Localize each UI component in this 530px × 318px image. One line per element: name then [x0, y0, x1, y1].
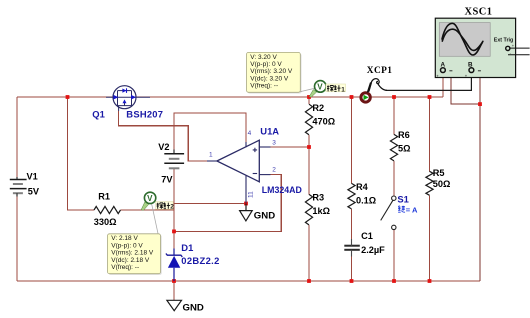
- label V1 value: [27, 171, 40, 196]
- svg-text:470Ω: 470Ω: [312, 116, 335, 126]
- label R5 value: [433, 168, 451, 189]
- junction node R2 on top rail: [307, 95, 311, 99]
- label R2 value: [312, 103, 335, 127]
- transistor Q1 BSH207 P-MOSFET: [106, 86, 150, 111]
- svg-text:R1: R1: [98, 191, 110, 201]
- svg-text:5V: 5V: [28, 186, 40, 196]
- resistor R3 1kohm: [305, 194, 312, 225]
- svg-text:V(p-p): 0 V: V(p-p): 0 V: [250, 61, 282, 68]
- label D1 02BZ2.2: [181, 242, 219, 266]
- wire V2- down: [173, 168, 175, 203]
- label S1 key=A: [397, 194, 418, 215]
- wire V1 left column top: [16, 97, 18, 177]
- voltage probe 2 (tan-zhen-2) on reference node: [141, 192, 158, 233]
- wire top rail left segment V1+ to Q1: [17, 96, 113, 98]
- battery V2 7V: [164, 150, 184, 169]
- svg-text:LM324AD: LM324AD: [262, 185, 302, 195]
- measurement tooltip for probe 2 (2.18 V): [108, 234, 162, 275]
- junction node R5 on ground rail: [428, 279, 432, 283]
- wire S1 bottom to ground rail: [393, 230, 395, 281]
- wire R4 bottom to C1 top: [351, 209, 353, 244]
- svg-text:1: 1: [341, 86, 345, 93]
- svg-text:2: 2: [170, 204, 174, 211]
- voltage probe 1 (tan-zhen-1) on output node: [301, 81, 327, 97]
- wire R2 bottom to R3 top: [308, 135, 310, 195]
- svg-text:V(freq): --: V(freq): --: [111, 264, 139, 271]
- svg-text:S1: S1: [397, 194, 408, 205]
- label V2 value: [158, 142, 173, 185]
- svg-text:4: 4: [248, 130, 252, 137]
- resistor R6 5ohm: [390, 134, 397, 161]
- svg-text:R2: R2: [312, 103, 324, 113]
- resistor R2 470ohm: [305, 104, 312, 135]
- resistor R5 50ohm: [426, 171, 433, 195]
- svg-text:02BZ2.2: 02BZ2.2: [181, 255, 219, 266]
- svg-text:D1: D1: [181, 242, 193, 253]
- oscilloscope XSC1: [435, 18, 529, 78]
- junction node op-amp pin11 GND: [244, 202, 248, 206]
- svg-text:50Ω: 50Ω: [433, 179, 451, 189]
- svg-text:Q1: Q1: [92, 108, 105, 119]
- svg-text:V: 3.20 V: V: 3.20 V: [250, 54, 277, 61]
- svg-text:V1: V1: [27, 171, 38, 181]
- svg-text:1: 1: [209, 152, 213, 159]
- op-amp U1A LM324AD: [207, 140, 271, 203]
- svg-text:BSH207: BSH207: [126, 108, 163, 119]
- junction node zener reference to pin2: [172, 230, 176, 234]
- junction node divider R2/R3 pin3: [307, 145, 311, 149]
- wire scope B- down to ground rail: [479, 78, 481, 281]
- label U1A LM324AD: [260, 126, 302, 195]
- svg-text:V2: V2: [158, 142, 169, 152]
- junction node D1 on ground rail: [172, 279, 176, 283]
- ground symbol at bottom of D1 column: [167, 300, 182, 310]
- junction node R6 on top rail: [392, 95, 396, 99]
- label C1 value: [361, 231, 385, 255]
- svg-text:V(freq): --: V(freq): --: [250, 83, 278, 90]
- resistor R1 330ohm (horizontal): [94, 206, 121, 213]
- wire R2 top lead to rail: [308, 97, 310, 104]
- wire op-amp pin4 to V2+: [174, 113, 246, 150]
- svg-text:R6: R6: [398, 130, 410, 140]
- svg-text:V: V: [317, 83, 323, 92]
- wire node A branch down to R1: [68, 97, 95, 210]
- svg-text:V(p-p): 0 V: V(p-p): 0 V: [111, 242, 143, 249]
- switch S1: [381, 196, 396, 230]
- measurement tooltip for probe 1 (3.20 V): [247, 52, 302, 93]
- svg-text:V(rms): 3.20 V: V(rms): 3.20 V: [250, 68, 293, 75]
- label R6 value: [398, 130, 410, 153]
- svg-text:2: 2: [272, 167, 276, 174]
- wire op-amp pin3 to R2/R3 divider node: [271, 146, 310, 148]
- zener diode D1 02BZ2.2: [166, 249, 182, 282]
- wire R5 top lead to rail: [429, 97, 431, 171]
- svg-text:0.1Ω: 0.1Ω: [356, 196, 376, 206]
- svg-text:GND: GND: [183, 302, 204, 313]
- svg-text:R5: R5: [433, 168, 445, 178]
- junction node R5 on top rail: [428, 95, 432, 99]
- wire D1 bottom to ground symbol: [173, 268, 175, 300]
- wire Q1 gate down and over to op-amp output: [119, 111, 207, 161]
- wire V1 left column bottom: [16, 197, 18, 282]
- label probe2: [156, 202, 175, 211]
- wire zener node column (V2 to D1): [173, 204, 175, 249]
- wire R5 bottom to ground rail: [429, 195, 431, 281]
- wire R1 right to zener node column: [121, 209, 175, 211]
- svg-text:3: 3: [272, 140, 276, 147]
- resistor R4 0.1ohm: [348, 183, 355, 209]
- wire scope A+ down to rail end: [442, 73, 444, 97]
- capacitor C1 2.2uF: [344, 239, 360, 257]
- junction node R4 on top rail: [350, 95, 354, 99]
- current probe XCP1: [361, 79, 387, 102]
- label R3 value: [312, 193, 330, 217]
- svg-text:XCP1: XCP1: [367, 66, 393, 76]
- ground symbol at op-amp pin 11: [240, 204, 253, 221]
- svg-text:V(rms): 2.18 V: V(rms): 2.18 V: [111, 250, 154, 257]
- svg-text:V: 2.18 V: V: 2.18 V: [111, 235, 138, 242]
- wire C1 bottom to ground rail: [351, 252, 353, 281]
- svg-text:330Ω: 330Ω: [94, 217, 117, 227]
- svg-text:R3: R3: [312, 193, 324, 203]
- junction node R3 on ground rail: [307, 279, 311, 283]
- wire R6 top lead to rail: [393, 97, 395, 134]
- svg-text:V(dc): 2.18 V: V(dc): 2.18 V: [111, 257, 150, 264]
- wire R6 bottom to S1 top: [393, 161, 395, 196]
- svg-text:V(dc): 3.20 V: V(dc): 3.20 V: [250, 75, 289, 82]
- svg-text:R4: R4: [356, 182, 369, 192]
- label Q1 BSH207: [92, 108, 163, 119]
- svg-text:7V: 7V: [161, 175, 173, 185]
- label probe1: [326, 84, 346, 93]
- junction node A-/B- at R5 column: [478, 102, 482, 106]
- junction node S1 on ground rail: [392, 279, 396, 283]
- wire top rail right segment Q1 to scope A+: [136, 96, 443, 98]
- svg-text:XSC1: XSC1: [465, 7, 493, 18]
- junction node R1 branch on top rail: [66, 95, 70, 99]
- wire bottom ground rail: [17, 280, 480, 282]
- wire R4 top lead to rail: [351, 97, 353, 183]
- svg-text:U1A: U1A: [260, 126, 279, 137]
- svg-text:5Ω: 5Ω: [398, 143, 410, 153]
- battery V1 5V: [10, 177, 27, 197]
- junction node C1 on ground rail: [350, 279, 354, 283]
- svg-text:Ext Trig: Ext Trig: [494, 37, 513, 43]
- svg-text:= A: = A: [406, 206, 418, 215]
- svg-text:1kΩ: 1kΩ: [312, 206, 330, 216]
- svg-text:GND: GND: [254, 210, 275, 221]
- svg-text:2.2µF: 2.2µF: [361, 245, 385, 255]
- wire op-amp pin2 down and over to zener node: [174, 175, 281, 232]
- wire V2- over to op-amp GND node: [174, 203, 246, 205]
- svg-text:11: 11: [247, 191, 254, 198]
- wire R3 bottom to ground rail: [308, 225, 310, 281]
- svg-text:V: V: [147, 194, 153, 203]
- label R4 value: [356, 182, 376, 206]
- wire XCP1 output to scope B+ (black): [386, 78, 471, 91]
- svg-text:C1: C1: [361, 231, 373, 241]
- wire scope A- down and over to R5/B- node: [451, 78, 480, 105]
- label R1 value: [94, 191, 117, 227]
